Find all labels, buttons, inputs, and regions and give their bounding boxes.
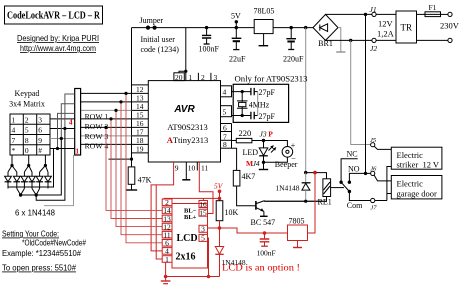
svg-text:220uF: 220uF xyxy=(283,55,304,64)
svg-text:12V: 12V xyxy=(378,19,394,29)
svg-text:LED: LED xyxy=(242,148,258,157)
node bus B junction xyxy=(19,193,22,196)
wire jumper to pin19 net (vertical) xyxy=(131,28,133,160)
svg-text:7805: 7805 xyxy=(289,217,305,226)
svg-text:6 x 1N4148: 6 x 1N4148 xyxy=(15,209,56,218)
transistor Q BC547 xyxy=(251,201,323,227)
LED D xyxy=(242,141,276,163)
ground LED/beeper xyxy=(263,162,265,169)
wire keypad row 2 xyxy=(50,128,75,130)
pin 2 label xyxy=(198,73,205,82)
LCD pin 16 box xyxy=(199,200,208,209)
svg-text:ROW 4: ROW 4 xyxy=(85,142,109,151)
svg-text:Setting Your Code:: Setting Your Code: xyxy=(2,230,59,239)
wire 12V to 7805 in (red) xyxy=(308,173,316,233)
svg-text:5: 5 xyxy=(201,234,205,243)
wire J2 net to J5 (gray) xyxy=(351,40,371,144)
svg-text:11: 11 xyxy=(201,164,208,173)
wire diode pair 4+5 join xyxy=(32,189,40,196)
svg-text:6: 6 xyxy=(223,124,227,133)
svg-text:1: 1 xyxy=(12,115,16,124)
svg-text:ATtiny2313: ATtiny2313 xyxy=(167,135,209,145)
svg-text:J6: J6 xyxy=(370,166,377,173)
wire 7805 out rail (red) xyxy=(220,228,288,233)
svg-text:100nF: 100nF xyxy=(257,249,276,258)
LCD pin 5 box xyxy=(199,234,208,243)
node J1 branch xyxy=(364,13,367,16)
wire keypad row 3 xyxy=(50,138,75,140)
pins 12-19 boxes (left) xyxy=(132,85,149,154)
wire garage to Com bus xyxy=(387,193,391,195)
svg-text:+: + xyxy=(291,141,296,150)
svg-text:27pF: 27pF xyxy=(259,112,276,121)
node row3/col junction xyxy=(60,137,63,140)
svg-text:3: 3 xyxy=(38,115,42,124)
svg-text:J5: J5 xyxy=(370,137,377,144)
relay RE1 coil xyxy=(318,179,332,207)
wire connector to AVR pin 18 xyxy=(81,143,132,145)
wire column 2 split xyxy=(24,166,32,173)
diode D2 1N4148 keypad xyxy=(13,172,20,189)
wire connector to AVR pin 13 xyxy=(81,101,132,103)
wire column stub 3 xyxy=(58,113,75,148)
svg-text:LCD: LCD xyxy=(177,233,198,244)
wire Com to J7 xyxy=(349,192,370,201)
wire pin4 to crystal xyxy=(232,91,251,93)
connector K1 (7-pin) xyxy=(75,89,81,156)
wire connector spare (gray) xyxy=(44,155,74,206)
wire relay coil bottom xyxy=(265,197,327,202)
svg-text:1: 1 xyxy=(189,73,193,82)
diode D3 1N4148 keypad xyxy=(21,172,28,189)
ground pin 10 xyxy=(182,162,195,180)
svg-text:22uF: 22uF xyxy=(229,55,246,64)
wire AVR data line to LCD pin 14 (red) xyxy=(106,127,162,210)
diode D1 1N4148 keypad xyxy=(5,172,12,189)
diode D 1N4148 flyback xyxy=(275,173,310,203)
svg-text:5V: 5V xyxy=(214,182,224,191)
transformer TR xyxy=(396,11,417,43)
terminal 230V line xyxy=(442,12,452,16)
crystal X 4MHz xyxy=(237,92,270,116)
svg-text:ROW 1: ROW 1 xyxy=(85,112,109,121)
wire diode bus B xyxy=(21,139,62,196)
svg-text:5: 5 xyxy=(223,108,227,117)
svg-text:1: 1 xyxy=(76,148,80,156)
wire J1 net to NO contact xyxy=(365,14,367,173)
crystal section box xyxy=(233,84,288,122)
svg-text:Designed by: Kripa PURI: Designed by: Kripa PURI xyxy=(17,34,99,43)
label BL- BL+ xyxy=(184,208,197,222)
beeper BZ xyxy=(264,141,298,170)
LCD pin 3 box xyxy=(199,225,208,234)
svg-text:LCD is an option !: LCD is an option ! xyxy=(222,263,300,273)
wire 12V raw vertical (gray) xyxy=(305,28,307,173)
svg-text:220: 220 xyxy=(239,128,252,138)
svg-text:Jumper: Jumper xyxy=(140,16,164,25)
svg-text:J3: J3 xyxy=(260,130,267,139)
svg-text:5: 5 xyxy=(25,126,29,135)
wire J1 to TR xyxy=(376,13,396,15)
pin 20 (VCC) box xyxy=(174,73,184,82)
wire column stub 1 xyxy=(65,94,75,129)
wire AVR pin11 to LCD BL+ (red) xyxy=(199,162,213,214)
wire aux to LCD pin1 (red) xyxy=(156,185,162,259)
svg-text:3: 3 xyxy=(201,225,205,234)
svg-text:Only for AT90S2313: Only for AT90S2313 xyxy=(235,75,308,84)
wire pin5 to crystal xyxy=(232,115,251,117)
LCD pin 13 box xyxy=(162,214,172,223)
LCD pin 4 box xyxy=(162,247,172,256)
svg-text:2: 2 xyxy=(201,73,205,82)
svg-text:BC 547: BC 547 xyxy=(251,218,276,227)
jumper J (initial code reset) xyxy=(140,16,164,30)
svg-text:8: 8 xyxy=(25,136,29,145)
capacitor C 27pF bottom xyxy=(251,112,276,121)
wire J7 to Com bus xyxy=(375,200,387,202)
load box electric garage door xyxy=(391,176,442,199)
pin 11 label xyxy=(197,162,208,173)
svg-text:3: 3 xyxy=(214,73,218,82)
LCD pin 11 box xyxy=(162,231,172,240)
wire connector to AVR pin 12 xyxy=(81,92,132,94)
pin 4 box xyxy=(221,86,232,97)
svg-text:4K7: 4K7 xyxy=(242,172,256,181)
svg-text:100nF: 100nF xyxy=(199,45,220,54)
svg-text:10: 10 xyxy=(188,164,196,173)
LCD pin 2 box xyxy=(162,198,172,207)
svg-text:5V: 5V xyxy=(231,12,241,21)
wire connector to AVR pin 17 xyxy=(81,135,132,137)
svg-text:2x16: 2x16 xyxy=(176,252,196,263)
node 12V raw (to relay) xyxy=(304,26,307,29)
node row4/col junction xyxy=(56,147,59,150)
resistor R 4K7 xyxy=(232,148,256,206)
svg-text:1,2A: 1,2A xyxy=(377,29,395,39)
wire LCD ground rail (red) xyxy=(161,262,220,283)
svg-text:230V: 230V xyxy=(440,21,460,31)
svg-text:*OldCode#NewCode#: *OldCode#NewCode# xyxy=(22,239,86,248)
LCD module box (red) xyxy=(172,204,208,269)
svg-text:6: 6 xyxy=(38,126,42,135)
wire connector to AVR pin 15 xyxy=(81,118,132,120)
LCD pin 12 box xyxy=(162,222,172,231)
diode D 1N4148 contrast (red) xyxy=(215,247,246,277)
svg-text:F1: F1 xyxy=(429,3,437,12)
node J2 branch xyxy=(349,39,352,42)
instructions text xyxy=(2,230,86,273)
op: MCU U1 AVR body xyxy=(148,81,220,162)
wire +5V top rail xyxy=(132,27,314,29)
terminal 230V neutral xyxy=(417,38,453,42)
capacitor C 100nF (VCC) xyxy=(199,26,220,54)
resistor R 10K (red) xyxy=(216,201,238,221)
svg-text:http://www.avr.4mg.com: http://www.avr.4mg.com xyxy=(20,44,96,53)
node NO/J1 junction xyxy=(364,172,367,175)
svg-text:Com: Com xyxy=(347,201,363,210)
svg-text:4MHz: 4MHz xyxy=(249,101,270,110)
svg-text:7: 7 xyxy=(12,136,16,145)
wire NC stub xyxy=(341,159,358,183)
wire striker to Com bus xyxy=(387,167,391,201)
terminal J1 xyxy=(370,5,377,17)
svg-text:ROW 3: ROW 3 xyxy=(85,132,109,141)
node row2/col junction xyxy=(63,127,66,130)
svg-text:*: * xyxy=(12,146,16,155)
resistor R 220 xyxy=(232,128,264,143)
regulator U 7805 xyxy=(288,217,308,248)
wire J6 to garage xyxy=(374,175,391,181)
load box electric striker xyxy=(391,147,442,169)
label 12V 1,2A xyxy=(377,19,395,39)
svg-text:Electric: Electric xyxy=(397,179,424,189)
wire pin19 net to keypad bus xyxy=(109,158,132,160)
wire keypad column 2 drop xyxy=(28,155,30,166)
svg-text:19: 19 xyxy=(136,145,144,154)
node M/J4 xyxy=(246,159,265,168)
capacitor C 100nF out (red) xyxy=(257,231,276,257)
svg-text:CodeLockAVR – LCD – R: CodeLockAVR – LCD – R xyxy=(7,11,101,22)
node 5V LCD (red) xyxy=(214,182,224,201)
svg-text:0: 0 xyxy=(25,146,29,155)
svg-text:4: 4 xyxy=(12,126,16,135)
terminal J2 xyxy=(370,38,377,53)
svg-text:code (1234): code (1234) xyxy=(141,45,180,54)
svg-text:3x4 Matrix: 3x4 Matrix xyxy=(9,100,45,109)
wire relay actuator link xyxy=(331,187,344,189)
wire 5V rail to LCD pin2/16 (red) xyxy=(164,198,220,200)
wire AVR data line to LCD pin 12 (red) xyxy=(116,110,162,226)
wire AVR data line to LCD pin 6 (red) xyxy=(126,93,162,242)
pins 6,7,8 boxes xyxy=(221,124,232,150)
svg-text:10K: 10K xyxy=(225,208,239,217)
svg-text:8: 8 xyxy=(223,140,227,149)
capacitor C 22uF xyxy=(229,28,246,64)
svg-text:Keypad: Keypad xyxy=(15,89,40,98)
note initial user code xyxy=(141,35,180,54)
svg-text:4: 4 xyxy=(69,119,73,127)
wire connector to AVR pin 16 xyxy=(81,126,132,128)
svg-text:Initial user: Initial user xyxy=(141,35,176,44)
LCD pin 15 box xyxy=(199,209,208,218)
diode D4 1N4148 keypad xyxy=(29,172,36,189)
wire AVR data line to LCD pin 11 (red) xyxy=(121,102,162,235)
svg-text:16: 16 xyxy=(199,200,207,209)
svg-text:1N4148: 1N4148 xyxy=(275,184,299,193)
resistor R 47K (pin19 pull) xyxy=(126,158,152,191)
wire J2 to TR xyxy=(376,39,396,41)
svg-text:P: P xyxy=(268,130,273,139)
svg-text:NO: NO xyxy=(348,165,360,174)
svg-text:9: 9 xyxy=(38,136,42,145)
wire J5 to striker xyxy=(374,146,391,149)
wire VCC into pin 1 xyxy=(179,28,187,81)
keypad SW 3x4 matrix xyxy=(10,114,50,155)
svg-text:9: 9 xyxy=(175,164,179,173)
node bus C junction xyxy=(35,193,38,196)
svg-text:20: 20 xyxy=(175,73,183,82)
node 5V xyxy=(231,12,241,30)
svg-text:striker 12 V: striker 12 V xyxy=(397,160,440,170)
svg-text:J2: J2 xyxy=(370,44,377,53)
fuse F1 xyxy=(417,3,443,17)
wire column 1 split xyxy=(8,166,17,173)
terminal J6 xyxy=(370,166,377,176)
svg-text:J4: J4 xyxy=(253,159,260,168)
svg-text:#: # xyxy=(38,146,42,155)
wire 12V to relay coil top xyxy=(306,173,327,179)
node J3/P xyxy=(260,130,274,143)
wire keypad row 4 xyxy=(50,148,75,150)
pin 5 box xyxy=(221,106,232,117)
wire diode bus A xyxy=(8,149,54,188)
svg-text:Electric: Electric xyxy=(397,150,424,160)
svg-text:To open press: 5510#: To open press: 5510# xyxy=(2,264,77,273)
svg-text:J1: J1 xyxy=(370,5,377,14)
wire keypad row 1 xyxy=(50,118,75,120)
designer credit text xyxy=(17,34,99,53)
wire LCD pin5 to ground (red) xyxy=(208,238,209,277)
regulator U 78L05 xyxy=(254,7,275,46)
svg-text:NC: NC xyxy=(347,150,358,159)
svg-text:15: 15 xyxy=(199,209,207,218)
svg-text:TR: TR xyxy=(401,23,413,33)
svg-text:BL+: BL+ xyxy=(184,214,197,221)
svg-text:2: 2 xyxy=(25,115,29,124)
svg-text:27pF: 27pF xyxy=(259,88,276,97)
svg-text:garage door: garage door xyxy=(397,189,438,199)
wire AVR data line to LCD pin 13 (red) xyxy=(111,119,162,219)
svg-text:J7: J7 xyxy=(370,205,377,212)
svg-text:RE1: RE1 xyxy=(318,198,332,207)
wire diode pair 2+3 join xyxy=(17,189,25,196)
svg-text:Beeper: Beeper xyxy=(275,160,298,169)
svg-text:4: 4 xyxy=(223,88,227,97)
svg-text:Example: *1234#5510#: Example: *1234#5510# xyxy=(2,249,82,258)
title box xyxy=(5,6,103,24)
wire AVR pin9 to LCD RS (red) xyxy=(151,162,174,251)
wire bridge bottom to J2 xyxy=(326,39,372,41)
label keypad xyxy=(9,89,45,109)
pin 3 label xyxy=(211,73,218,82)
node 12V to 7805 (red) xyxy=(313,171,317,175)
capacitor C 27pF top xyxy=(251,88,276,97)
diode D6 1N4148 keypad xyxy=(45,172,52,189)
LCD pin 1 box xyxy=(162,255,172,264)
wire column 3 split xyxy=(40,166,48,173)
wire caps common (gray) xyxy=(257,92,259,116)
svg-text:AVR: AVR xyxy=(173,104,195,115)
svg-text:47K: 47K xyxy=(138,176,152,185)
terminal J5 xyxy=(370,137,377,147)
svg-text:78L05: 78L05 xyxy=(254,7,275,16)
wire NO to J6 xyxy=(349,173,370,182)
wire keypad column 1 drop xyxy=(11,155,13,166)
wire connector to AVR pin 14 xyxy=(81,109,132,111)
capacitor C 220uF xyxy=(283,26,304,64)
svg-text:AT90S2313: AT90S2313 xyxy=(167,122,208,132)
terminal J7 xyxy=(370,198,377,211)
wire column stub 2 xyxy=(61,104,74,139)
diode D5 1N4148 keypad xyxy=(36,172,43,189)
LCD pin 14 box xyxy=(162,206,172,215)
bridge rectifier BR1 xyxy=(313,14,338,48)
wire keypad column 3 drop xyxy=(44,155,46,166)
ground BR1 minus (gray) xyxy=(338,28,341,52)
wire bridge top to J1 xyxy=(326,13,372,15)
switch lever NC/NO xyxy=(339,181,351,194)
LCD pin 6 box xyxy=(162,239,172,248)
wire diode bus C xyxy=(36,129,65,201)
node LCD contrast (red) xyxy=(208,221,222,247)
